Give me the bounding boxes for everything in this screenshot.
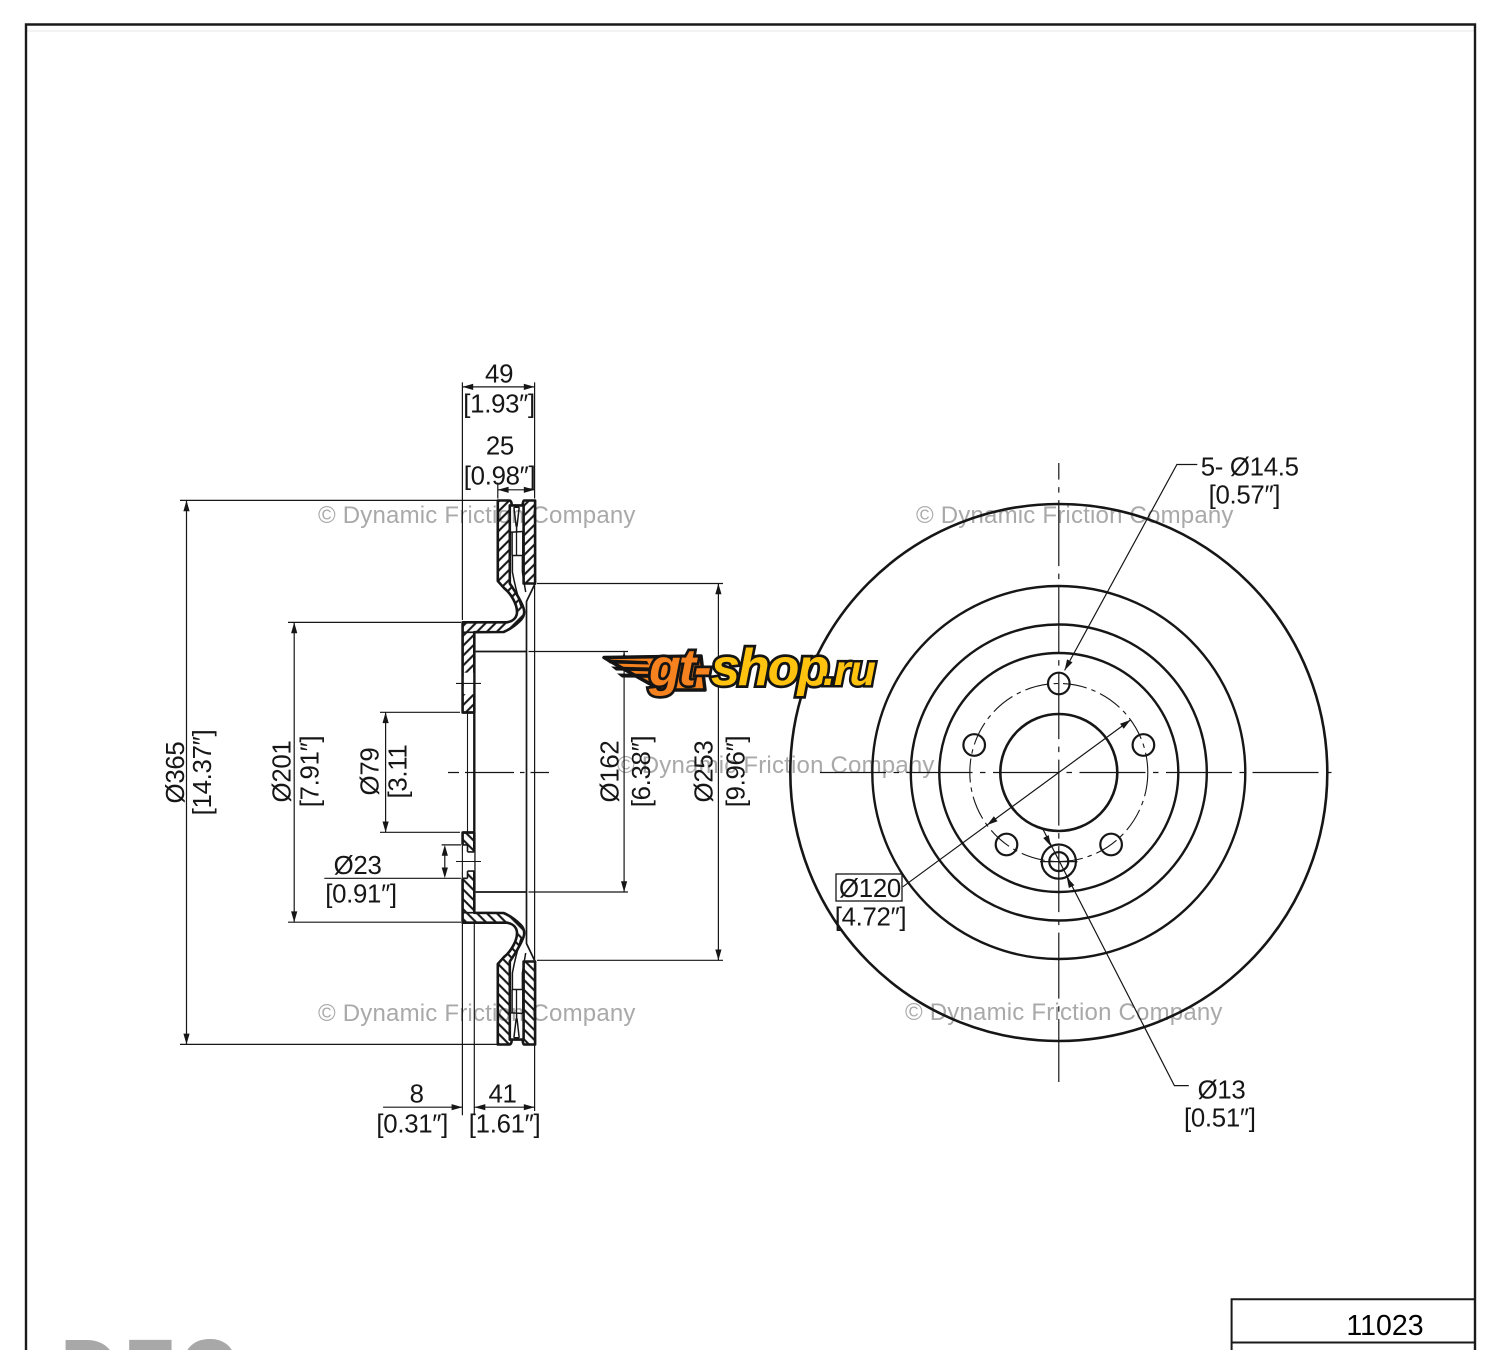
svg-text:Ø365: Ø365 <box>162 742 190 804</box>
svg-text:© Dynamic Friction Company: © Dynamic Friction Company <box>318 1000 636 1027</box>
svg-text:Ø13: Ø13 <box>1198 1077 1246 1105</box>
svg-text:5- Ø14.5: 5- Ø14.5 <box>1201 454 1299 482</box>
svg-text:[0.51″]: [0.51″] <box>1184 1105 1256 1133</box>
svg-text:[6.38″]: [6.38″] <box>628 736 656 808</box>
svg-text:© Dynamic Friction Company: © Dynamic Friction Company <box>318 502 636 529</box>
svg-text:Ø162: Ø162 <box>597 741 625 803</box>
svg-text:Ø120: Ø120 <box>839 875 901 903</box>
svg-text:8: 8 <box>410 1081 424 1109</box>
svg-text:Ø201: Ø201 <box>269 741 297 803</box>
svg-text:[4.72″]: [4.72″] <box>835 904 907 932</box>
svg-text:[0.91″]: [0.91″] <box>325 881 397 909</box>
svg-text:[0.98″]: [0.98″] <box>464 463 536 491</box>
svg-text:.ru: .ru <box>823 647 876 695</box>
svg-text:[14.37″]: [14.37″] <box>189 730 217 816</box>
svg-text:shop: shop <box>711 639 828 697</box>
svg-text:49: 49 <box>485 361 513 389</box>
svg-text:Ø79: Ø79 <box>357 748 385 796</box>
svg-text:Ø253: Ø253 <box>690 741 718 803</box>
svg-text:25: 25 <box>486 433 514 461</box>
svg-text:DFC: DFC <box>60 1319 242 1350</box>
svg-text:gt-: gt- <box>648 639 710 697</box>
svg-text:© Dynamic Friction Company: © Dynamic Friction Company <box>617 752 935 779</box>
svg-text:41: 41 <box>488 1081 516 1109</box>
svg-text:[1.93″]: [1.93″] <box>463 391 535 419</box>
svg-text:Ø23: Ø23 <box>334 852 382 880</box>
svg-text:[9.96″]: [9.96″] <box>722 736 750 808</box>
svg-text:[3.11: [3.11 <box>385 745 413 799</box>
svg-text:© Dynamic Friction Company: © Dynamic Friction Company <box>905 999 1223 1026</box>
svg-text:© Dynamic Friction Company: © Dynamic Friction Company <box>916 502 1234 529</box>
svg-text:[0.31″]: [0.31″] <box>376 1111 448 1139</box>
svg-text:[7.91″]: [7.91″] <box>297 736 325 808</box>
svg-text:[0.57″]: [0.57″] <box>1209 482 1281 510</box>
svg-text:11023: 11023 <box>1346 1310 1423 1342</box>
svg-text:[1.61″]: [1.61″] <box>469 1111 541 1139</box>
